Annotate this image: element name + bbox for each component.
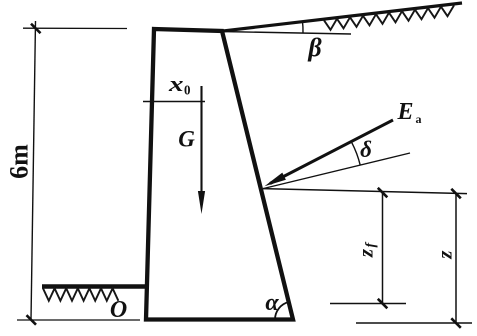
- svg-text:O: O: [110, 297, 127, 323]
- label 6m: [5, 144, 34, 179]
- svg-text:z: z: [353, 248, 377, 258]
- tick top of z: [451, 189, 461, 199]
- tick bottom of 6m: [27, 315, 37, 325]
- backfill slope surface line: [220, 3, 462, 31]
- delta angle arc: [352, 142, 361, 165]
- z dimension line: [455, 193, 457, 323]
- svg-text:E: E: [397, 99, 414, 125]
- ground line at wall toe (left): [42, 284, 149, 289]
- hatching under left ground line: [43, 288, 118, 301]
- beta reference line (horizontal): [221, 32, 351, 35]
- 6m dimension line: [31, 21, 36, 320]
- tick bottom of zf: [378, 299, 388, 309]
- z bottom extension line: [356, 322, 472, 324]
- delta reference line: [263, 153, 410, 189]
- label zf: [353, 242, 378, 259]
- beta angle arc: [302, 22, 305, 33]
- tick bottom of z: [451, 318, 461, 328]
- svg-text:x: x: [168, 71, 184, 96]
- horizontal reference line from Ea point: [263, 189, 467, 194]
- G action line with arrow: [200, 86, 202, 195]
- alpha angle arc: [275, 302, 289, 320]
- x0 dimension line: [143, 101, 205, 103]
- 6m top extension line: [23, 27, 127, 29]
- svg-text:z: z: [432, 250, 456, 260]
- zf dimension line: [382, 192, 384, 303]
- svg-text:β: β: [307, 33, 322, 62]
- 6m bottom extension line: [17, 319, 140, 321]
- zf bottom extension line: [330, 303, 406, 305]
- hatching on slope surface: [324, 5, 454, 29]
- wall (retaining wall outline): [146, 29, 293, 320]
- svg-text:G: G: [178, 127, 195, 152]
- svg-text:α: α: [265, 290, 279, 316]
- tick top of zf: [378, 188, 388, 198]
- label z: [432, 250, 456, 260]
- svg-text:δ: δ: [360, 137, 372, 162]
- svg-text:6m: 6m: [5, 144, 34, 179]
- tick top of 6m: [31, 24, 41, 34]
- svg-text:a: a: [416, 112, 422, 126]
- svg-text:0: 0: [184, 84, 191, 99]
- Ea force arrow: [270, 120, 393, 184]
